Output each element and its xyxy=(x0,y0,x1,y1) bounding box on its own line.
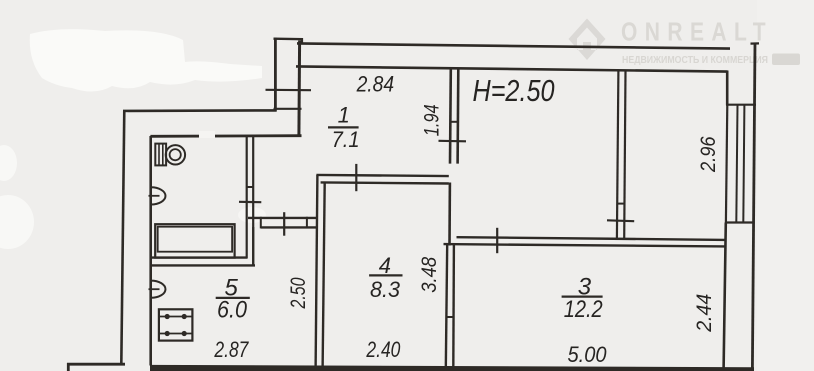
svg-text:H=2.50: H=2.50 xyxy=(473,73,555,108)
fixture: toilet bowl outer xyxy=(166,145,185,164)
tick: room3 door xyxy=(496,228,498,253)
wall: room1 south upper line xyxy=(316,175,448,176)
wall: top jog at x302 xyxy=(301,38,303,45)
watermark logo house diamond xyxy=(569,19,606,61)
jamb: bathroom door xyxy=(246,186,254,188)
jamb: NE room door xyxy=(617,203,626,205)
fraction bar room1 xyxy=(328,126,359,128)
fixture: toilet bowl inner xyxy=(170,149,181,160)
wall: rooms3-4 line B xyxy=(452,245,455,369)
svg-text:ONREALT: ONREALT xyxy=(621,19,773,47)
jamb: rooms3-4 connector xyxy=(446,316,455,318)
wall: room3 north lower line xyxy=(444,244,726,246)
wall: left outer (entry) xyxy=(274,38,277,112)
svg-text:2.96: 2.96 xyxy=(697,136,720,173)
white cloud top-left xyxy=(30,29,262,91)
wall: right inner below window xyxy=(724,223,726,369)
window jamb line 2 xyxy=(736,105,737,223)
fixture: wash basin bath xyxy=(151,187,165,204)
svg-text:6.0: 6.0 xyxy=(217,296,248,323)
svg-text:2.44: 2.44 xyxy=(693,294,716,333)
wall: top outer left stub xyxy=(274,38,304,41)
tick: room4 door xyxy=(355,164,357,191)
fixture: stove knobs xyxy=(165,314,187,336)
wall: NE room west line B xyxy=(624,71,625,239)
jamb: corridor door west xyxy=(260,217,262,229)
tick: NE room door dim xyxy=(607,219,634,222)
svg-text:1.94: 1.94 xyxy=(420,104,443,136)
wall: room4 west line B xyxy=(323,183,325,369)
fixture: basin tick bath xyxy=(149,195,160,197)
svg-text:2.87: 2.87 xyxy=(214,337,249,362)
wall: NE room west line A xyxy=(617,71,619,239)
fraction bar room3 xyxy=(562,296,603,298)
wall: room3 north upper line xyxy=(457,237,726,240)
fraction bar room5 xyxy=(216,297,250,299)
svg-text:2.50: 2.50 xyxy=(287,277,310,309)
wall: room4 west line A xyxy=(316,175,318,369)
svg-text:5.00: 5.00 xyxy=(568,342,608,367)
svg-text:НЕДВИЖИМОСТЬ И КОММЕРЦИЯ: НЕДВИЖИМОСТЬ И КОММЕРЦИЯ xyxy=(622,54,768,66)
wall: window head sill xyxy=(726,104,756,106)
wall: bathroom east line A xyxy=(246,137,248,259)
white-out patch on bathroom north wall xyxy=(199,131,215,138)
wall: bathroom south upper line xyxy=(150,256,248,258)
wall: room5 west xyxy=(149,136,152,366)
svg-text:8.3: 8.3 xyxy=(370,277,401,302)
window jamb line 1 xyxy=(726,105,727,223)
wall: west outer xyxy=(121,110,124,365)
lighter right margin xyxy=(757,0,814,371)
fixture: basin tick kitchen xyxy=(149,288,160,290)
wall: west block top xyxy=(123,109,277,112)
wall: room1 west xyxy=(297,41,301,138)
jamb: corridor door east xyxy=(306,217,308,229)
wall: top-right step vertical xyxy=(726,71,729,106)
jamb: room1 east xyxy=(450,121,459,123)
wall: rooms3-4 line A xyxy=(446,245,447,369)
tick: room5 door xyxy=(283,212,285,236)
wall: bottom outer band xyxy=(150,365,754,371)
wall: room4 east upper xyxy=(448,183,451,246)
wall: top outer upper edge xyxy=(297,43,730,48)
wall: right outer top hook xyxy=(751,42,760,44)
wall: bathroom north xyxy=(150,134,301,137)
white cloud left edge 1 xyxy=(0,145,17,181)
fixture: toilet tank xyxy=(155,144,166,166)
svg-text:3.48: 3.48 xyxy=(418,257,441,293)
wall: top outer lower edge xyxy=(296,66,728,71)
wall: bathroom south lower line xyxy=(150,264,255,266)
tick: dim 1.94 xyxy=(439,140,467,143)
wall: room1 east line A xyxy=(449,70,452,164)
wall: bottom notch horizontal xyxy=(67,363,125,366)
white cloud near corridor xyxy=(238,207,266,223)
wall: entry step horizontal xyxy=(274,108,302,110)
wall: kitchen nook west xyxy=(252,227,254,266)
svg-text:2.40: 2.40 xyxy=(366,337,401,362)
tick: bathroom door dim xyxy=(239,201,261,204)
fixture: bathtub outer xyxy=(155,224,234,257)
fixture: bathtub inner xyxy=(158,227,232,252)
svg-text:2.84: 2.84 xyxy=(356,72,394,97)
svg-text:1: 1 xyxy=(338,103,350,128)
window jamb line 3 xyxy=(743,105,744,223)
white cloud left edge 2 xyxy=(0,195,34,249)
svg-text:7.1: 7.1 xyxy=(332,127,360,152)
svg-text:12.2: 12.2 xyxy=(564,296,603,323)
wall: bathroom east line B xyxy=(252,137,254,266)
wall: room1 south lower line xyxy=(321,182,449,183)
window bottom sill xyxy=(726,221,753,223)
wall: room1 east line B xyxy=(456,70,459,164)
fixture: stove xyxy=(159,309,193,340)
wall: corridor south upper line xyxy=(248,217,317,219)
tick: entry door xyxy=(266,89,312,92)
svg-text:4: 4 xyxy=(379,253,391,278)
fixture: toilet tank lines xyxy=(158,144,160,166)
wall: bottom notch vertical xyxy=(67,363,70,371)
fraction bar room4 xyxy=(369,274,402,276)
wall: corridor south lower line xyxy=(261,226,316,228)
watermark badge xyxy=(772,54,800,66)
fixture: stove line 2 xyxy=(159,333,193,335)
fixture: stove line 1 xyxy=(159,316,193,318)
wall: right outer xyxy=(752,43,755,369)
fixture: wash basin kitchen xyxy=(151,281,165,298)
